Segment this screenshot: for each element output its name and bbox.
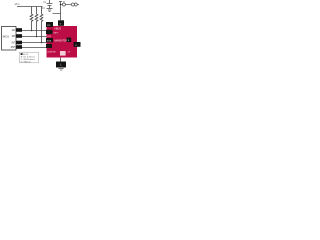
junction node R3/INT [41,42,43,44]
svg-text:SDA: SDA [47,39,52,42]
pin block left 2 [46,38,53,42]
wire: VDD supply rail [17,6,43,8]
IC U1 body [47,26,78,58]
pin block right CC [74,42,81,47]
wire: VBUS vertical [59,2,62,21]
pin block VBUS top [58,20,64,26]
svg-text:I2C: I2C [12,30,16,32]
capacitor C1 [47,0,53,9]
svg-text:A: 5V: A: 5V [23,53,29,56]
svg-text:MCU: MCU [3,35,10,39]
svg-text:SPI: SPI [12,36,16,38]
pin block left 3 [46,44,52,48]
pin block top-left [46,22,53,27]
legend box [20,52,39,63]
svg-text:ILIM EN: ILIM EN [48,51,56,53]
svg-text:DET: DET [54,32,59,34]
junction node R1/SDA [31,30,33,32]
host pin tab 3 [16,41,22,45]
svg-text:VBUS: VBUS [54,28,61,31]
resistor R1 [30,7,33,31]
junction node R2/SCL [36,36,38,38]
pin block mid-right [67,38,72,42]
host pin tab 2 [16,34,22,38]
wire IC to load [60,58,62,62]
svg-text:D: GND ret: D: GND ret [21,61,31,64]
svg-text:NAVIGATOR: NAVIGATOR [54,40,67,43]
host controller box [2,27,17,51]
wire SCL [22,36,47,38]
resistor R2 [35,7,38,37]
wire RST [22,47,47,49]
connector J1 [71,3,74,6]
host pin tab 1 [16,28,22,32]
svg-text:I2C: I2C [47,25,51,27]
ground G2 [59,69,64,71]
host pin tab 4 [16,45,22,49]
ground G1 [47,9,53,12]
wire: cap net to VBUS line [53,13,61,15]
wire SDA [22,30,47,32]
wire INT [22,42,47,44]
pin block left 1 [46,30,53,34]
ferrite bead FB1 [61,4,63,6]
load block [56,62,66,68]
svg-text:RST: RST [11,47,16,49]
svg-text:OVP: OVP [47,36,52,38]
sub-block on IC [60,51,66,56]
junction node VBUS [60,4,62,6]
legend bullet [21,53,23,55]
resistor R3 [40,7,43,43]
svg-text:INT: INT [12,43,16,45]
